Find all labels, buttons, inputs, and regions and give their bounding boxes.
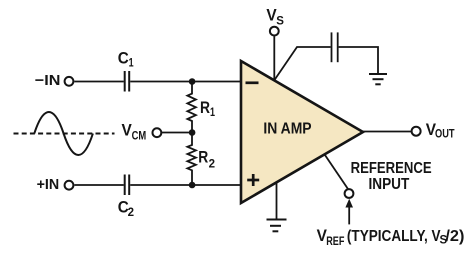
arrow to reference terminal xyxy=(348,205,350,224)
dashed common-mode axis line xyxy=(14,133,115,135)
sine wave symbol xyxy=(34,112,93,155)
wire VCM terminal to node B xyxy=(162,132,193,134)
svg-text:1: 1 xyxy=(129,58,134,70)
svg-text:−IN: −IN xyxy=(35,72,61,89)
svg-text:S: S xyxy=(276,15,284,27)
wire -IN terminal to C1 xyxy=(74,81,123,83)
op-amp U1 IN AMP triangle xyxy=(241,61,363,203)
svg-text:2: 2 xyxy=(209,158,215,170)
svg-text:CM: CM xyxy=(132,130,147,142)
svg-text:C: C xyxy=(118,50,129,68)
svg-text:R: R xyxy=(198,149,208,167)
terminal VS xyxy=(270,27,279,36)
wire node C to op-amp xyxy=(192,184,241,186)
ground (op-amp) xyxy=(267,219,287,221)
wire supply branch to decoupling cap xyxy=(275,47,331,80)
capacitor (decoupling) xyxy=(331,32,333,62)
svg-text:/2): /2) xyxy=(445,228,464,245)
terminal VOUT xyxy=(412,127,421,136)
svg-text:1: 1 xyxy=(210,107,215,119)
terminal VCM xyxy=(153,128,162,137)
node C junction dot xyxy=(189,182,196,189)
capacitor C2 xyxy=(124,175,126,196)
svg-text:+IN: +IN xyxy=(37,176,60,193)
wire C1 to node A xyxy=(130,81,192,83)
node B junction dot (VCM node) xyxy=(189,129,196,136)
pin - (inverting input marker) xyxy=(246,81,259,84)
wire op-amp bottom to ground xyxy=(276,182,278,219)
wire VS to op-amp top xyxy=(273,37,275,81)
svg-text:R: R xyxy=(200,99,210,117)
svg-text:REF: REF xyxy=(326,236,344,248)
terminal +IN xyxy=(65,181,74,190)
node A junction dot xyxy=(189,78,196,85)
svg-text:REFERENCE: REFERENCE xyxy=(351,160,432,177)
wire node A to op-amp xyxy=(192,81,241,83)
pin + (non-inverting input marker) xyxy=(247,179,259,182)
wire C2 to node C xyxy=(130,184,192,186)
svg-text:V: V xyxy=(122,121,132,139)
svg-text:2: 2 xyxy=(128,207,134,219)
svg-text:OUT: OUT xyxy=(435,129,455,141)
svg-text:(TYPICALLY, V: (TYPICALLY, V xyxy=(347,228,441,245)
terminal reference xyxy=(345,189,354,198)
resistor R2 xyxy=(187,133,196,186)
terminal -IN xyxy=(65,77,74,86)
wire output xyxy=(363,131,412,133)
svg-text:IN AMP: IN AMP xyxy=(263,120,311,137)
capacitor C1 xyxy=(124,71,126,92)
svg-text:INPUT: INPUT xyxy=(369,176,410,193)
wire reference pin xyxy=(325,155,348,189)
resistor R1 xyxy=(187,82,196,133)
wire decoupling cap to ground xyxy=(339,47,378,73)
wire +IN terminal to C2 xyxy=(74,184,123,186)
svg-text:V: V xyxy=(266,7,276,25)
ground (decoupling) xyxy=(369,73,387,75)
